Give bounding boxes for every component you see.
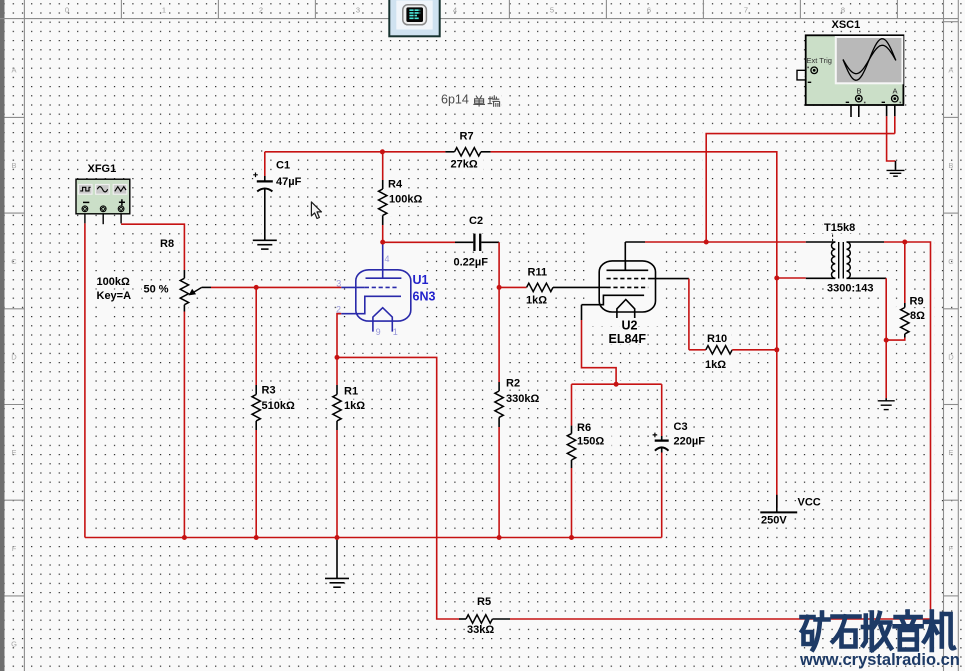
svg-text:T15k8: T15k8 <box>824 222 855 234</box>
svg-text:27kΩ: 27kΩ <box>451 159 478 171</box>
svg-text:C2: C2 <box>469 215 483 227</box>
svg-text:1kΩ: 1kΩ <box>526 295 547 307</box>
svg-text:F: F <box>949 544 954 553</box>
svg-text:A: A <box>948 65 953 74</box>
svg-text:R10: R10 <box>707 333 727 345</box>
svg-text:C: C <box>11 257 17 266</box>
svg-text:C3: C3 <box>674 421 688 433</box>
svg-text:7: 7 <box>744 5 748 14</box>
svg-text:R5: R5 <box>477 596 491 608</box>
svg-text:510kΩ: 510kΩ <box>262 400 295 412</box>
svg-text:250V: 250V <box>761 515 787 527</box>
svg-text:1: 1 <box>393 327 398 337</box>
svg-text:A: A <box>893 86 898 95</box>
svg-text:330kΩ: 330kΩ <box>506 393 539 405</box>
svg-text:www.crystalradio.cn: www.crystalradio.cn <box>799 651 960 669</box>
svg-text:XSC1: XSC1 <box>832 19 861 31</box>
svg-text:R2: R2 <box>506 377 520 389</box>
svg-text:R9: R9 <box>910 296 924 308</box>
svg-text:50 %: 50 % <box>144 284 169 296</box>
svg-text:9: 9 <box>376 327 381 337</box>
svg-text:220µF: 220µF <box>674 436 706 448</box>
svg-text:R6: R6 <box>577 422 591 434</box>
svg-text:C: C <box>948 257 954 266</box>
svg-text:A: A <box>11 65 16 74</box>
svg-text:100kΩ: 100kΩ <box>389 194 422 206</box>
svg-text:33kΩ: 33kΩ <box>467 624 494 636</box>
svg-text:5: 5 <box>550 5 554 14</box>
svg-text:1: 1 <box>162 5 166 14</box>
svg-text:Ext Trig: Ext Trig <box>807 56 832 65</box>
svg-text:U1: U1 <box>413 273 429 287</box>
svg-text:XFG1: XFG1 <box>88 163 117 175</box>
svg-text:8: 8 <box>841 5 845 14</box>
svg-text:2: 2 <box>259 5 263 14</box>
svg-text:F: F <box>12 544 17 553</box>
svg-text:B: B <box>11 161 16 170</box>
svg-text:R7: R7 <box>460 131 474 143</box>
svg-text:D: D <box>11 353 17 362</box>
svg-text:R4: R4 <box>388 178 403 190</box>
svg-text:4: 4 <box>385 254 390 264</box>
svg-text:EL84F: EL84F <box>609 332 647 346</box>
svg-text:E: E <box>948 448 953 457</box>
svg-text:D: D <box>948 353 954 362</box>
svg-text:4: 4 <box>453 5 457 14</box>
svg-text:3300:143: 3300:143 <box>827 283 874 295</box>
svg-text:C1: C1 <box>276 160 290 172</box>
svg-text:B: B <box>948 161 953 170</box>
svg-text:VCC: VCC <box>798 497 821 509</box>
svg-text:6: 6 <box>647 5 651 14</box>
svg-text:8Ω: 8Ω <box>910 310 925 322</box>
svg-text:R11: R11 <box>528 266 548 278</box>
svg-text:B: B <box>857 86 862 95</box>
svg-text:1kΩ: 1kΩ <box>344 400 365 412</box>
svg-text:G: G <box>11 640 17 649</box>
svg-text:Key=A: Key=A <box>97 290 132 302</box>
svg-text:1kΩ: 1kΩ <box>705 359 726 371</box>
svg-text:0.22µF: 0.22µF <box>454 257 489 269</box>
svg-text:47µF: 47µF <box>276 176 302 188</box>
svg-text:R8: R8 <box>160 238 174 250</box>
svg-text:100kΩ: 100kΩ <box>97 276 130 288</box>
svg-text:U2: U2 <box>622 319 638 333</box>
svg-text:E: E <box>11 448 16 457</box>
svg-text:6N3: 6N3 <box>413 290 436 304</box>
svg-text:R3: R3 <box>262 385 276 397</box>
svg-text:150Ω: 150Ω <box>577 436 604 448</box>
svg-text:3: 3 <box>336 278 341 288</box>
svg-text:2: 2 <box>336 305 341 315</box>
svg-text:6p14: 6p14 <box>441 93 469 107</box>
svg-text:R1: R1 <box>344 386 358 398</box>
svg-text:3: 3 <box>356 5 360 14</box>
svg-text:0: 0 <box>65 5 69 14</box>
